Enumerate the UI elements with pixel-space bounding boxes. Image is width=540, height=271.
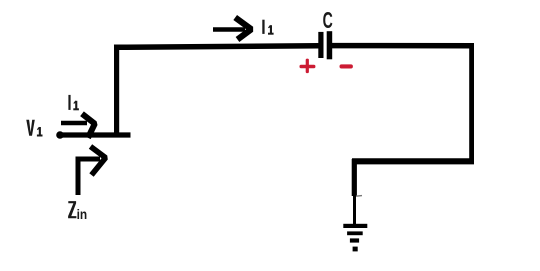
node input dot xyxy=(56,131,64,139)
svg-text:C: C xyxy=(323,7,333,34)
node input terminal bar xyxy=(58,132,131,137)
label I1 top xyxy=(262,20,273,35)
polarity - (red) xyxy=(340,64,353,68)
wire right vertical xyxy=(469,44,474,161)
label V1 xyxy=(26,120,42,137)
capacitor C value label xyxy=(323,7,333,34)
capacitor C plates xyxy=(318,31,332,59)
label Zin xyxy=(68,201,87,222)
ground xyxy=(343,224,367,252)
polarity + (red) xyxy=(300,59,316,74)
wire small tick on stem xyxy=(356,195,362,198)
wire ground stem thin xyxy=(353,195,356,224)
wire ground stem thick xyxy=(352,159,357,196)
wire bottom horizontal xyxy=(352,158,474,164)
wire top-left segment (left corner to capacitor left plate) xyxy=(114,46,319,48)
current arrow I1 left xyxy=(61,114,95,138)
wire left vertical xyxy=(114,45,119,137)
current arrow I1 top xyxy=(213,18,251,40)
svg-text:in: in xyxy=(77,206,88,222)
impedance arrow Zin xyxy=(78,147,106,196)
wire top-right segment (capacitor right plate to right corner) xyxy=(332,43,474,49)
label I1 left xyxy=(68,95,79,110)
